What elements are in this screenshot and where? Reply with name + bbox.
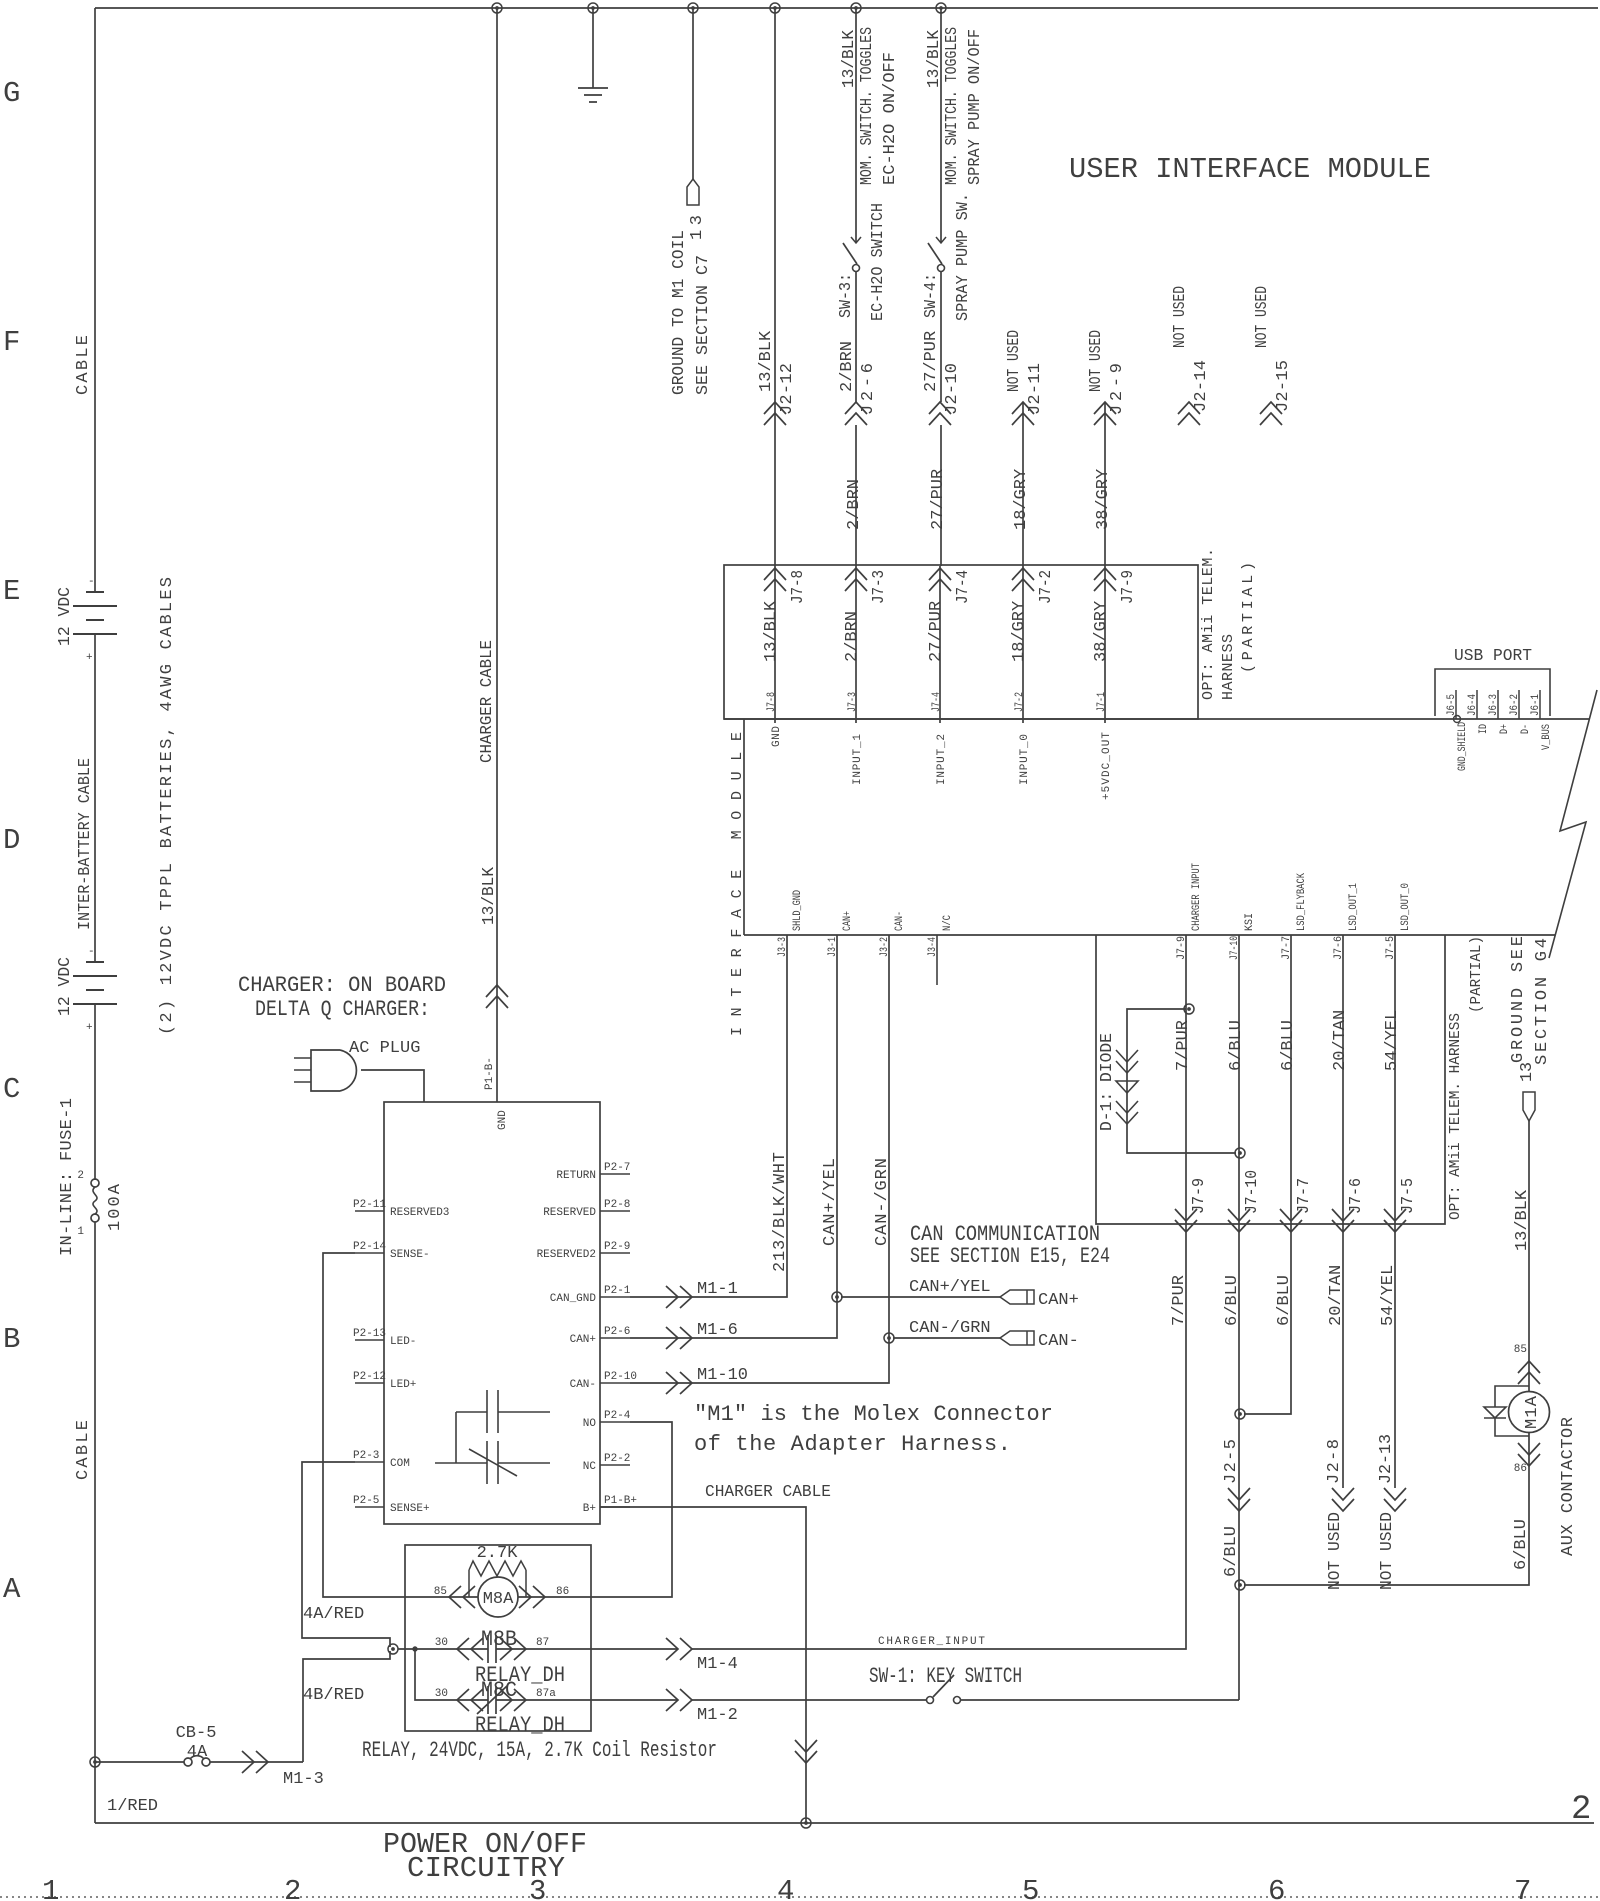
switch SW-1 key switch bbox=[927, 1697, 934, 1704]
svg-text:54/YEL: 54/YEL bbox=[1383, 1010, 1402, 1071]
svg-text:OPT: AMii TELEM.: OPT: AMii TELEM. bbox=[1200, 548, 1217, 700]
svg-text:J7-3: J7-3 bbox=[847, 692, 859, 712]
svg-text:RETURN: RETURN bbox=[556, 1170, 596, 1182]
svg-text:AC PLUG: AC PLUG bbox=[349, 1039, 420, 1058]
svg-text:P2-9: P2-9 bbox=[604, 1241, 630, 1253]
svg-text:85: 85 bbox=[434, 1586, 447, 1598]
svg-text:M1A: M1A bbox=[1523, 1395, 1542, 1429]
svg-text:J6-1: J6-1 bbox=[1530, 694, 1542, 716]
svg-text:CAN+: CAN+ bbox=[842, 911, 854, 931]
svg-text:J2-13: J2-13 bbox=[1377, 1434, 1396, 1484]
svg-text:P2-13: P2-13 bbox=[353, 1328, 386, 1340]
wire CAN_GND to M1-1 to J3-3 bbox=[630, 935, 787, 1297]
svg-text:M1-3: M1-3 bbox=[283, 1770, 324, 1789]
svg-text:P1-B-: P1-B- bbox=[484, 1057, 496, 1090]
svg-text:13/BLK: 13/BLK bbox=[1513, 1189, 1532, 1251]
svg-text:SEE SECTION E15, E24: SEE SECTION E15, E24 bbox=[910, 1244, 1110, 1269]
svg-text:INPUT_1: INPUT_1 bbox=[852, 734, 864, 785]
svg-text:CAN+: CAN+ bbox=[570, 1334, 596, 1346]
svg-text:1: 1 bbox=[42, 1875, 59, 1901]
svg-text:N/C: N/C bbox=[942, 915, 954, 931]
svg-text:P2-1: P2-1 bbox=[604, 1285, 631, 1297]
svg-text:6/BLU: 6/BLU bbox=[1279, 1020, 1298, 1071]
wire bottom bus bbox=[95, 1822, 1594, 1824]
node battery positive corner bbox=[90, 1757, 100, 1767]
relay box bbox=[405, 1545, 591, 1731]
svg-text:P2-14: P2-14 bbox=[353, 1241, 386, 1253]
svg-text:V_BUS: V_BUS bbox=[1541, 724, 1553, 750]
svg-text:NC: NC bbox=[583, 1461, 597, 1473]
svg-text:27/PUR: 27/PUR bbox=[922, 331, 941, 392]
terminal pin 13 (ground see section G4) bbox=[1523, 1092, 1535, 1121]
wire 18/GRY through harness box bbox=[1022, 566, 1024, 723]
svg-text:87a: 87a bbox=[536, 1688, 556, 1700]
svg-text:30: 30 bbox=[435, 1637, 448, 1649]
wire node to CB-5 bbox=[95, 1761, 184, 1763]
charger internal NC contact with slash bbox=[435, 1441, 550, 1484]
svg-text:EC-H2O SWITCH: EC-H2O SWITCH bbox=[869, 203, 888, 321]
svg-text:J7-3: J7-3 bbox=[870, 570, 889, 604]
svg-text:213/BLK/WHT: 213/BLK/WHT bbox=[771, 1152, 790, 1272]
charger pin P2-7 RETURN bbox=[600, 1173, 630, 1175]
svg-text:(2) 12VDC TPPL BATTERIES, 4AWG: (2) 12VDC TPPL BATTERIES, 4AWG CABLES bbox=[158, 577, 177, 1035]
svg-text:CHARGER: ON BOARD: CHARGER: ON BOARD bbox=[238, 973, 446, 998]
harness box OPT: AMii TELEM. (lower) bbox=[1096, 935, 1445, 1224]
node relay input junction bbox=[388, 1644, 398, 1654]
svg-text:LED+: LED+ bbox=[390, 1379, 416, 1391]
circuit breaker CB-5 4A bbox=[184, 1758, 192, 1766]
svg-text:NOT USED: NOT USED bbox=[1326, 1512, 1345, 1590]
node CAN+ junction bbox=[832, 1292, 842, 1302]
svg-text:100A: 100A bbox=[106, 1183, 125, 1231]
svg-text:CAN-: CAN- bbox=[570, 1379, 596, 1391]
svg-text:+: + bbox=[86, 652, 93, 664]
svg-text:B: B bbox=[3, 1323, 20, 1356]
svg-text:J6-2: J6-2 bbox=[1509, 694, 1521, 716]
svg-text:USB PORT: USB PORT bbox=[1454, 647, 1532, 666]
svg-text:CAN_GND: CAN_GND bbox=[550, 1293, 597, 1305]
connector J2-11 chevrons bbox=[1012, 402, 1034, 425]
svg-text:P2-5: P2-5 bbox=[353, 1495, 379, 1507]
svg-text:D-: D- bbox=[1520, 724, 1532, 734]
charger pin P2-4 NO bbox=[600, 1421, 630, 1423]
svg-text:P2-12: P2-12 bbox=[353, 1371, 386, 1383]
svg-text:13/BLK: 13/BLK bbox=[757, 330, 776, 392]
svg-text:20/TAN: 20/TAN bbox=[1327, 1265, 1346, 1326]
svg-text:P2-11: P2-11 bbox=[353, 1199, 386, 1211]
aux contactor M1A coil bbox=[1509, 1392, 1550, 1433]
wire node to bottom bus bbox=[94, 1762, 96, 1823]
svg-text:MOM. SWITCH. TOGGLES: MOM. SWITCH. TOGGLES bbox=[943, 27, 962, 185]
switch SW-4 bbox=[936, 237, 946, 243]
svg-text:-: - bbox=[88, 946, 95, 958]
arrow J7-4 into harness bbox=[929, 568, 951, 591]
wire 13/BLK column J2-12 from top bus bbox=[774, 8, 776, 566]
arrow J7-9 into harness bbox=[1094, 568, 1116, 591]
charger pin P2-12 LED+ bbox=[355, 1382, 384, 1384]
svg-text:30: 30 bbox=[435, 1688, 448, 1700]
ground symbol (top) bbox=[592, 8, 594, 88]
svg-text:13/BLK: 13/BLK bbox=[480, 866, 499, 925]
svg-text:J7-4: J7-4 bbox=[931, 692, 943, 712]
wire 2/BRN switch column to harness bbox=[855, 425, 857, 566]
fuse FUSE-1 100A bbox=[91, 1179, 99, 1187]
svg-text:J7-10: J7-10 bbox=[1243, 1170, 1262, 1214]
svg-text:P2-3: P2-3 bbox=[353, 1450, 379, 1462]
svg-text:MOM. SWITCH. TOGGLES: MOM. SWITCH. TOGGLES bbox=[858, 27, 877, 185]
svg-text:J7-9: J7-9 bbox=[1190, 1178, 1209, 1214]
switch SW-3 bbox=[851, 237, 861, 243]
charger pin P2-5 SENSE+ bbox=[355, 1506, 384, 1508]
svg-text:P2-8: P2-8 bbox=[604, 1199, 630, 1211]
connector J2-9 chevrons bbox=[1094, 402, 1116, 425]
svg-text:7: 7 bbox=[1514, 1875, 1531, 1901]
svg-text:2: 2 bbox=[77, 1170, 84, 1182]
relay M8A coil bbox=[478, 1577, 518, 1617]
svg-text:INPUT_0: INPUT_0 bbox=[1019, 734, 1031, 785]
svg-text:KSI: KSI bbox=[1244, 913, 1256, 931]
svg-text:J7-2: J7-2 bbox=[1014, 692, 1026, 712]
wire B+ charger cable to bottom bus bbox=[600, 1507, 806, 1823]
node 6/BLU to LSD_FLYBACK bbox=[1235, 1409, 1245, 1419]
diode D-1 symbol bbox=[1116, 1050, 1138, 1073]
USB pin J6-5 GND_SHIELD bbox=[1455, 690, 1457, 719]
svg-text:20/TAN: 20/TAN bbox=[1331, 1010, 1350, 1071]
svg-text:J2-14: J2-14 bbox=[1192, 360, 1211, 412]
svg-text:J2-12: J2-12 bbox=[778, 363, 797, 415]
wire 38/GRY through harness box bbox=[1104, 566, 1106, 723]
svg-text:13/BLK: 13/BLK bbox=[762, 600, 781, 662]
wire 27/PUR switch column to harness bbox=[940, 425, 942, 566]
svg-text:J7-4: J7-4 bbox=[954, 570, 973, 604]
node top bus at SW-4 bbox=[936, 3, 946, 13]
diode D-1 branch bbox=[1127, 1009, 1236, 1153]
node 6/BLU to aux contactor bbox=[1235, 1580, 1245, 1590]
node top bus at M1 coil wire bbox=[688, 3, 698, 13]
svg-text:2/BRN: 2/BRN bbox=[843, 611, 862, 662]
wire M8A 86 to NO pin bbox=[518, 1422, 672, 1597]
svg-text:(PARTIAL): (PARTIAL) bbox=[1468, 936, 1485, 1013]
svg-text:J6-3: J6-3 bbox=[1488, 694, 1500, 716]
svg-text:SPRAY PUMP SW.: SPRAY PUMP SW. bbox=[954, 193, 973, 321]
svg-text:GND: GND bbox=[497, 1110, 509, 1130]
wire fuse to node bbox=[94, 1222, 96, 1762]
svg-text:D-1: DIODE: D-1: DIODE bbox=[1098, 1033, 1117, 1131]
svg-text:CAN+/YEL: CAN+/YEL bbox=[909, 1278, 991, 1297]
wire 7/PUR to CHARGER_INPUT / M1-4 bbox=[692, 1224, 1186, 1649]
svg-text:M1-1: M1-1 bbox=[697, 1280, 738, 1299]
svg-text:+5VDC_OUT: +5VDC_OUT bbox=[1101, 732, 1113, 800]
svg-text:LED-: LED- bbox=[390, 1336, 416, 1348]
svg-text:M1-10: M1-10 bbox=[697, 1366, 748, 1385]
svg-text:13/BLK: 13/BLK bbox=[840, 29, 859, 88]
wire 13/BLK through harness box bbox=[774, 566, 776, 723]
svg-text:M1-4: M1-4 bbox=[697, 1655, 738, 1674]
charger pin P2-2 NC bbox=[600, 1464, 630, 1466]
svg-text:1: 1 bbox=[77, 1226, 84, 1238]
charger pin P2-8 RESERVED bbox=[600, 1210, 630, 1212]
wire COM to node (4A/RED) bbox=[302, 1462, 390, 1647]
svg-text:LSD_OUT_0: LSD_OUT_0 bbox=[1400, 883, 1412, 931]
USB pin J6-2 D- bbox=[1518, 690, 1520, 719]
svg-text:J7-8: J7-8 bbox=[766, 692, 778, 712]
svg-text:B+: B+ bbox=[583, 1503, 596, 1515]
svg-text:of the Adapter Harness.: of the Adapter Harness. bbox=[694, 1432, 1011, 1457]
svg-text:6/BLU: 6/BLU bbox=[1223, 1275, 1242, 1326]
wire CAN+ to M1-6 to J3-1 bbox=[630, 935, 837, 1338]
svg-text:4B/RED: 4B/RED bbox=[303, 1686, 364, 1705]
charger pin P2-11 RESERVED3 bbox=[355, 1210, 384, 1212]
svg-text:CHARGER_INPUT: CHARGER_INPUT bbox=[878, 1636, 985, 1648]
svg-text:SW-4:: SW-4: bbox=[922, 273, 941, 318]
node top bus at SW-3 bbox=[851, 3, 861, 13]
connector J2-15 chevrons (NOT USED) bbox=[1260, 402, 1282, 425]
svg-text:HARNESS: HARNESS bbox=[1220, 634, 1237, 700]
svg-text:AUX CONTACTOR: AUX CONTACTOR bbox=[1559, 1417, 1578, 1556]
connector M1-3 chevrons bbox=[242, 1751, 268, 1773]
svg-text:P2-10: P2-10 bbox=[604, 1371, 637, 1383]
svg-text:86: 86 bbox=[1514, 1463, 1527, 1475]
svg-text:M8C: M8C bbox=[481, 1678, 517, 1703]
svg-text:M8A: M8A bbox=[483, 1590, 514, 1609]
bottom perforation dots bbox=[0, 1896, 1600, 1898]
battery B2 12VDC (lower) bbox=[73, 962, 117, 1004]
USB pin J6-1 V_BUS bbox=[1539, 690, 1541, 719]
svg-text:P1-B+: P1-B+ bbox=[604, 1495, 637, 1507]
svg-text:CAN-/GRN: CAN-/GRN bbox=[909, 1319, 991, 1338]
svg-text:P2-7: P2-7 bbox=[604, 1162, 630, 1174]
svg-text:J7-7: J7-7 bbox=[1295, 1178, 1314, 1214]
svg-text:CIRCUITRY: CIRCUITRY bbox=[407, 1852, 565, 1885]
svg-text:CAN-: CAN- bbox=[894, 911, 906, 931]
svg-text:12 VDC: 12 VDC bbox=[56, 957, 75, 1016]
direction chevrons 85 side bbox=[1518, 1361, 1540, 1384]
wire AC plug to charger bbox=[361, 1070, 424, 1102]
svg-text:2: 2 bbox=[284, 1875, 301, 1901]
wire 6/BLU in lower harness bbox=[1290, 935, 1292, 1224]
svg-text:J7-5: J7-5 bbox=[1399, 1178, 1418, 1214]
break line (lightning) bbox=[1549, 690, 1597, 958]
arrow J7-2 into harness bbox=[1012, 568, 1034, 591]
svg-text:P2-4: P2-4 bbox=[604, 1410, 631, 1422]
wire to M1 coil terminal bbox=[692, 8, 694, 179]
svg-text:J7-2: J7-2 bbox=[1037, 570, 1056, 604]
relay M8C contact bbox=[415, 1649, 678, 1714]
direction chevrons on charger cable bbox=[486, 985, 508, 1008]
wire SW-3 to J2 connector bbox=[855, 272, 857, 402]
wire battery to fuse bbox=[94, 1004, 96, 1180]
svg-text:CAN+: CAN+ bbox=[1038, 1291, 1079, 1310]
wire 13/BLK to aux contactor coil bbox=[1528, 1121, 1530, 1392]
svg-text:12 VDC: 12 VDC bbox=[56, 587, 75, 646]
svg-text:1/RED: 1/RED bbox=[107, 1797, 158, 1816]
svg-text:C: C bbox=[3, 1073, 20, 1106]
svg-text:J6-4: J6-4 bbox=[1467, 694, 1479, 716]
svg-text:D: D bbox=[3, 824, 20, 857]
svg-text:M1-6: M1-6 bbox=[697, 1321, 738, 1340]
svg-text:M1-2: M1-2 bbox=[697, 1706, 738, 1725]
svg-text:USER INTERFACE MODULE: USER INTERFACE MODULE bbox=[1069, 153, 1431, 186]
wire SW-4 to J2 connector bbox=[940, 272, 942, 402]
svg-text:CAN-: CAN- bbox=[1038, 1332, 1079, 1351]
svg-text:J7-6: J7-6 bbox=[1347, 1178, 1366, 1214]
connector J2-12 chevrons bbox=[764, 402, 786, 425]
svg-text:4A: 4A bbox=[187, 1743, 208, 1762]
connector CAN- terminal bbox=[1000, 1331, 1034, 1345]
svg-text:P2-2: P2-2 bbox=[604, 1453, 630, 1465]
wire 2/BRN through harness box bbox=[855, 566, 857, 723]
direction chevrons on B+ cable bbox=[795, 1740, 817, 1763]
svg-text:D+: D+ bbox=[1499, 724, 1511, 734]
arrow J7-5 out of harness bbox=[1384, 1209, 1406, 1232]
contact chevrons 85 side bbox=[449, 1586, 475, 1608]
svg-text:18/GRY: 18/GRY bbox=[1012, 469, 1031, 530]
svg-text:J2-5: J2-5 bbox=[1222, 1439, 1241, 1484]
connector CAN+ terminal bbox=[1000, 1290, 1034, 1304]
wire CAN- to M1-10 to J3-2 bbox=[630, 935, 889, 1383]
charger pin P1-B+ B+ bbox=[600, 1506, 630, 1508]
wire top bus to switch SW-4 bbox=[940, 8, 942, 243]
svg-text:GROUND TO M1 COIL: GROUND TO M1 COIL bbox=[670, 230, 689, 395]
wire 6/BLU LSD_FLYBACK branch bbox=[1244, 1224, 1291, 1414]
svg-text:87: 87 bbox=[536, 1637, 549, 1649]
svg-text:J3-1: J3-1 bbox=[827, 937, 839, 957]
arrow J7-7 out of harness bbox=[1280, 1209, 1302, 1232]
arrow J7-10 out of harness bbox=[1228, 1209, 1250, 1232]
connector J2-13 chevrons bbox=[1384, 1488, 1406, 1511]
direction chevrons 86 side bbox=[1518, 1443, 1540, 1466]
svg-text:2: 2 bbox=[1571, 1791, 1591, 1829]
svg-text:DELTA Q CHARGER:: DELTA Q CHARGER: bbox=[255, 997, 430, 1022]
battery B1 12VDC (upper) bbox=[73, 592, 117, 634]
svg-text:E: E bbox=[3, 575, 20, 608]
terminal pin 13 (to M1 coil) bbox=[687, 179, 699, 205]
svg-text:85: 85 bbox=[1514, 1344, 1527, 1356]
svg-text:7/PUR: 7/PUR bbox=[1170, 1275, 1189, 1326]
svg-text:SENSE+: SENSE+ bbox=[390, 1503, 430, 1515]
svg-text:CABLE: CABLE bbox=[74, 335, 93, 395]
USB pin J6-3 D+ bbox=[1497, 690, 1499, 719]
svg-text:J6-5: J6-5 bbox=[1446, 694, 1458, 716]
svg-text:LSD_OUT_1: LSD_OUT_1 bbox=[1348, 883, 1360, 931]
svg-text:J7-8: J7-8 bbox=[789, 570, 808, 604]
svg-text:SW-3:: SW-3: bbox=[837, 273, 856, 318]
contact chevrons 86 side bbox=[519, 1586, 545, 1608]
connector J2-14 chevrons (NOT USED) bbox=[1178, 402, 1200, 425]
arrow J7-6 out of harness bbox=[1332, 1209, 1354, 1232]
wire CAN+ to connector bbox=[841, 1296, 1000, 1298]
svg-text:CB-5: CB-5 bbox=[176, 1724, 217, 1743]
svg-text:OPT: AMii TELEM. HARNESS: OPT: AMii TELEM. HARNESS bbox=[1447, 1013, 1464, 1220]
svg-text:CAN-/GRN: CAN-/GRN bbox=[873, 1158, 892, 1246]
svg-text:13/BLK: 13/BLK bbox=[925, 29, 944, 88]
connector J2-8 chevrons bbox=[1332, 1488, 1354, 1511]
wire CAN- to connector bbox=[893, 1337, 1000, 1339]
svg-text:NOT USED: NOT USED bbox=[1005, 330, 1024, 392]
wire 7/PUR in lower harness bbox=[1185, 935, 1187, 1224]
svg-text:RESERVED: RESERVED bbox=[543, 1207, 596, 1219]
svg-text:CHARGER CABLE: CHARGER CABLE bbox=[705, 1483, 831, 1502]
svg-text:"M1" is the Molex Connector: "M1" is the Molex Connector bbox=[694, 1402, 1053, 1427]
connector M1-2 chevrons bbox=[666, 1689, 692, 1711]
svg-text:CHARGER INPUT: CHARGER INPUT bbox=[1191, 863, 1203, 931]
node top bus at charger cable bbox=[492, 3, 502, 13]
wire 54/YEL in lower harness bbox=[1394, 935, 1396, 1224]
svg-text:A: A bbox=[3, 1573, 21, 1606]
charger internal NO contact bbox=[456, 1390, 550, 1433]
charger internal contact common link bbox=[455, 1412, 457, 1463]
svg-text:SW-1: KEY SWITCH: SW-1: KEY SWITCH bbox=[869, 1664, 1022, 1689]
wire 20/TAN in lower harness bbox=[1342, 935, 1344, 1224]
svg-text:P2-6: P2-6 bbox=[604, 1326, 630, 1338]
svg-text:38/GRY: 38/GRY bbox=[1094, 469, 1113, 530]
node top bus at 13/BLK column bbox=[770, 3, 780, 13]
node top bus at ground bbox=[588, 3, 598, 13]
svg-text:J2-8: J2-8 bbox=[1325, 1439, 1344, 1484]
wire GND charger cable (P1-B-) from top bus bbox=[496, 8, 498, 1102]
wire 6/BLU in lower harness bbox=[1238, 935, 1240, 1224]
svg-text:J3-2: J3-2 bbox=[879, 937, 891, 957]
wire M1A 86 to key switch node bbox=[1244, 1432, 1529, 1585]
svg-text:J2-15: J2-15 bbox=[1274, 360, 1293, 412]
svg-text:F: F bbox=[3, 326, 20, 359]
charger (Delta Q) box bbox=[384, 1102, 600, 1524]
svg-text:J2-11: J2-11 bbox=[1026, 363, 1045, 415]
wire inter-battery cable bbox=[94, 634, 96, 962]
svg-text:NOT USED: NOT USED bbox=[1087, 330, 1106, 392]
wire 54/YEL J2-13 (not used) bbox=[1394, 1224, 1396, 1488]
wire 6/BLU (J7-10) down to key switch bbox=[1238, 1224, 1240, 1700]
svg-text:2/BRN: 2/BRN bbox=[838, 341, 857, 392]
wire key switch to 6/BLU bbox=[961, 1699, 1239, 1701]
svg-text:INPUT_2: INPUT_2 bbox=[936, 734, 948, 785]
svg-text:J7-1: J7-1 bbox=[1096, 692, 1108, 712]
charger pin P2-1 CAN_GND bbox=[600, 1296, 630, 1298]
wire CB-5 to M1-3 bbox=[210, 1761, 303, 1763]
wire J2-11 to harness bbox=[1022, 402, 1024, 566]
svg-text:EC-H2O ON/OFF: EC-H2O ON/OFF bbox=[881, 52, 900, 185]
stub J3-4 N/C bbox=[936, 935, 938, 985]
svg-text:LSD_FLYBACK: LSD_FLYBACK bbox=[1296, 873, 1308, 931]
svg-text:SENSE-: SENSE- bbox=[390, 1249, 430, 1261]
svg-text:RESERVED3: RESERVED3 bbox=[390, 1207, 449, 1219]
arrow J7-9 out of harness bbox=[1175, 1209, 1197, 1232]
svg-text:27/PUR: 27/PUR bbox=[927, 601, 946, 662]
svg-text:27/PUR: 27/PUR bbox=[929, 469, 948, 530]
svg-text:GND_SHIELD: GND_SHIELD bbox=[1457, 722, 1469, 771]
USB port bracket bbox=[1435, 669, 1550, 716]
svg-text:6/BLU: 6/BLU bbox=[1512, 1519, 1531, 1570]
svg-text:4A/RED: 4A/RED bbox=[303, 1605, 364, 1624]
charger pin P2-9 RESERVED2 bbox=[600, 1252, 630, 1254]
node D-1 top junction bbox=[1184, 1004, 1194, 1014]
svg-text:M8B: M8B bbox=[481, 1627, 517, 1652]
charger pin P2-13 LED- bbox=[355, 1339, 384, 1341]
svg-text:6/BLU: 6/BLU bbox=[1275, 1275, 1294, 1326]
svg-text:6: 6 bbox=[1268, 1875, 1285, 1901]
svg-text:(PARTIAL): (PARTIAL) bbox=[1240, 562, 1257, 673]
charger pin P2-10 CAN- bbox=[600, 1382, 630, 1384]
svg-text:38/GRY: 38/GRY bbox=[1092, 601, 1111, 662]
wire 27/PUR through harness box bbox=[939, 566, 941, 723]
wire J2-9 to harness bbox=[1104, 402, 1106, 566]
svg-text:-: - bbox=[88, 576, 95, 588]
wire top bus bbox=[95, 7, 1598, 9]
wire top bus to switch SW-3 bbox=[855, 8, 857, 243]
svg-text:J7-9: J7-9 bbox=[1119, 570, 1138, 604]
svg-text:J3-3: J3-3 bbox=[777, 937, 789, 957]
charger pin P2-3 COM bbox=[355, 1461, 384, 1463]
